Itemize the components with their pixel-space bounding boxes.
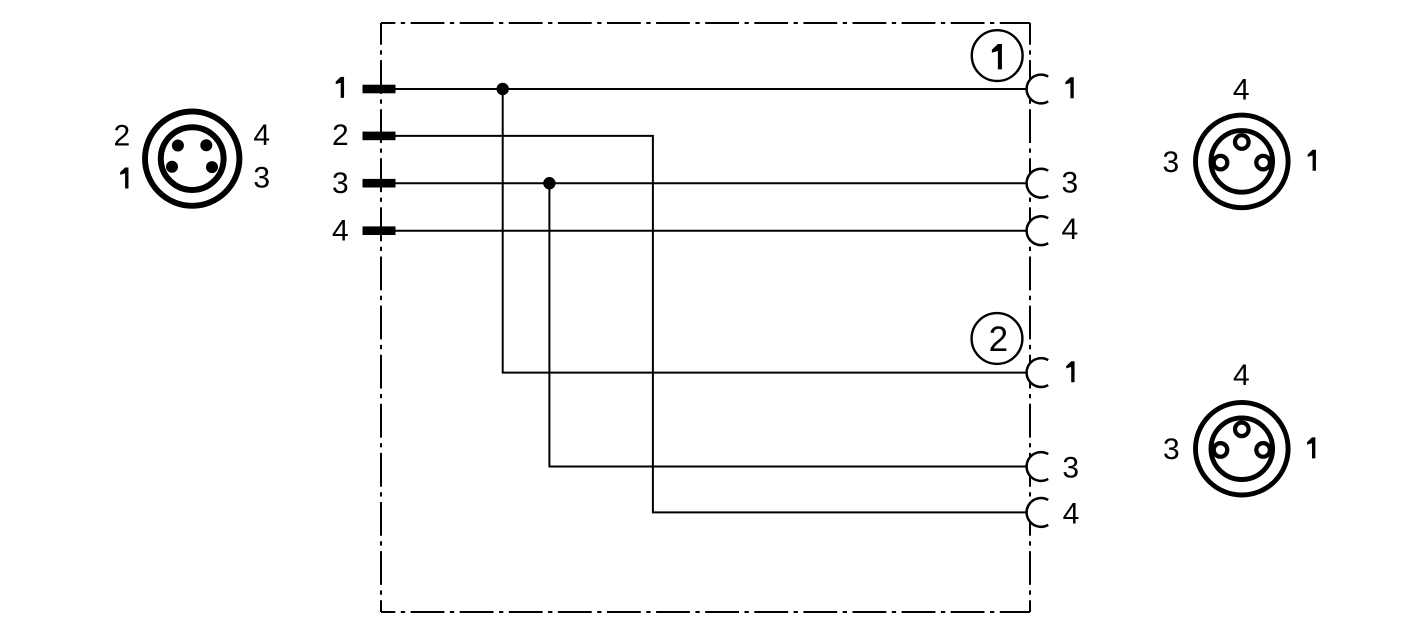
svg-text:2: 2 — [989, 320, 1008, 359]
svg-text:3: 3 — [1061, 166, 1078, 199]
svg-text:4: 4 — [253, 119, 270, 152]
svg-text:3: 3 — [253, 161, 270, 194]
svg-text:4: 4 — [1063, 498, 1080, 531]
svg-text:2: 2 — [114, 119, 131, 152]
svg-text:4: 4 — [1233, 73, 1250, 106]
svg-text:3: 3 — [1163, 146, 1180, 179]
svg-text:3: 3 — [1163, 433, 1180, 466]
svg-text:2: 2 — [332, 119, 349, 152]
svg-text:3: 3 — [332, 167, 349, 200]
svg-text:3: 3 — [1062, 451, 1079, 484]
svg-text:4: 4 — [1061, 213, 1078, 246]
svg-text:4: 4 — [332, 214, 349, 247]
svg-text:4: 4 — [1233, 359, 1250, 392]
